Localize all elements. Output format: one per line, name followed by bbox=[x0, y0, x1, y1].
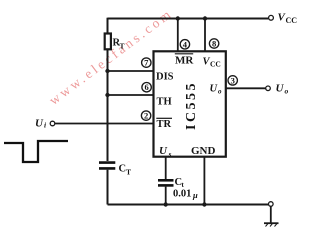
pin number 3 bbox=[228, 76, 237, 85]
svg-text:MR: MR bbox=[175, 55, 194, 67]
wire: bottom ground rail bbox=[108, 204, 269, 206]
wire: pin 3 output bbox=[226, 87, 266, 89]
svg-text:GND: GND bbox=[191, 145, 216, 157]
svg-text:U: U bbox=[276, 83, 285, 95]
svg-text:CC: CC bbox=[286, 16, 298, 25]
op-amp U1: IC555 timer box bbox=[154, 51, 226, 156]
svg-text:2: 2 bbox=[144, 111, 148, 121]
capacitor C1 0.01u bbox=[158, 177, 198, 200]
wire: top Vcc rail bbox=[108, 18, 269, 20]
ground bbox=[264, 223, 279, 226]
wire: C1 bottom lead bbox=[165, 187, 167, 205]
wire: ground lead bbox=[270, 206, 272, 223]
pin number 2 bbox=[141, 111, 150, 120]
terminal Uo bbox=[266, 86, 271, 91]
svg-text:o: o bbox=[285, 87, 289, 96]
svg-text:C: C bbox=[119, 164, 127, 175]
svg-text:U: U bbox=[35, 118, 44, 130]
junction: C1 to ground rail bbox=[164, 202, 168, 206]
svg-text:TH: TH bbox=[157, 97, 172, 108]
pin number 8 bbox=[209, 39, 218, 48]
svg-text:s: s bbox=[168, 150, 172, 159]
pin number 4 bbox=[180, 40, 189, 49]
svg-text:3: 3 bbox=[231, 75, 235, 85]
svg-text:o: o bbox=[218, 88, 222, 96]
svg-text:CC: CC bbox=[210, 60, 221, 69]
svg-text:4: 4 bbox=[183, 39, 188, 49]
svg-text:T: T bbox=[120, 42, 125, 51]
wire: GND pin lead bbox=[203, 157, 205, 205]
svg-text:μ: μ bbox=[192, 190, 198, 200]
svg-text:TR: TR bbox=[157, 119, 172, 130]
junction: GND to ground rail bbox=[202, 202, 206, 206]
wire: pin 8 vertical bbox=[204, 19, 206, 52]
pin number 6 bbox=[142, 83, 151, 92]
junction: pin6 wire bbox=[105, 93, 109, 97]
svg-text:T: T bbox=[126, 168, 131, 177]
pin number 7 bbox=[142, 58, 151, 67]
wire: CT bottom lead bbox=[107, 170, 109, 205]
svg-text:8: 8 bbox=[212, 39, 216, 49]
junction: pin7 wire bbox=[105, 69, 109, 73]
resistor RT bbox=[105, 34, 111, 50]
svg-text:7: 7 bbox=[144, 58, 149, 68]
svg-text:U: U bbox=[159, 145, 168, 157]
capacitor CT bbox=[99, 163, 131, 177]
svg-text:0.01: 0.01 bbox=[173, 189, 191, 200]
junction: pin4 on top rail bbox=[176, 16, 180, 20]
wire: RT top lead bbox=[107, 18, 109, 34]
wire: pin 7 DIS bbox=[108, 70, 154, 72]
input waveform (negative pulse) bbox=[4, 141, 68, 162]
junction: pin8 on top rail bbox=[203, 16, 207, 20]
wire: pin 5 Us lead bbox=[165, 157, 167, 180]
wire: pin 4 vertical bbox=[177, 19, 179, 52]
terminal Vcc bbox=[269, 15, 274, 20]
watermark www.elecfans.com bbox=[46, 5, 175, 108]
terminal: ground node circle bbox=[269, 202, 274, 207]
svg-text:DIS: DIS bbox=[156, 72, 174, 83]
svg-text:6: 6 bbox=[144, 82, 148, 92]
svg-text:IC555: IC555 bbox=[184, 81, 199, 130]
wire: pin 6 TH bbox=[108, 94, 154, 96]
wire: input to pin 2 bbox=[55, 123, 154, 125]
wire: left rail (RT to CT) bbox=[107, 49, 109, 161]
